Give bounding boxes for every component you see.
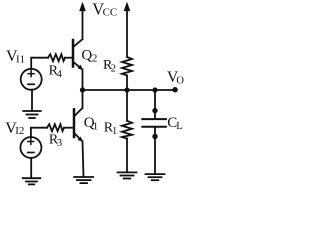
capacitor CL <box>142 118 166 120</box>
node dot CL top <box>152 108 157 113</box>
resistor R1 <box>122 121 132 139</box>
wire node to R1 <box>126 90 128 121</box>
node junction dot R2/R1 <box>124 87 129 92</box>
label VI2 <box>5 120 24 137</box>
svg-text:1: 1 <box>112 126 117 137</box>
node junction dot CL branch <box>152 87 157 92</box>
wire Q2 emitter down to node <box>82 70 84 90</box>
wire R2 to output node <box>126 75 128 90</box>
label R2 <box>103 58 116 74</box>
power VCC arrow right <box>126 8 128 57</box>
label CL <box>167 115 182 132</box>
label R3 <box>49 133 62 149</box>
wire R4 to Q2 base <box>65 57 72 59</box>
ground under VI2 <box>23 178 41 184</box>
voltage source VI1 <box>21 69 42 90</box>
svg-text:Q: Q <box>81 47 92 63</box>
transistor Q1 emitter arrowhead <box>78 137 83 142</box>
resistor R3 <box>47 124 64 131</box>
label VI1 <box>6 48 25 66</box>
wire CL to ground <box>154 127 156 174</box>
transistor Q1 collector diagonal <box>75 108 83 116</box>
svg-text:I2: I2 <box>15 125 24 137</box>
node junction dot Q2/Q1/output <box>80 87 85 92</box>
label Q1 <box>84 115 98 132</box>
power VCC arrow left <box>80 3 86 11</box>
wire Q2 collector to VCC <box>82 8 84 39</box>
svg-text:O: O <box>176 76 184 87</box>
ground under R1 <box>118 172 137 178</box>
transistor Q2 collector diagonal <box>74 39 83 46</box>
svg-text:L: L <box>176 121 182 132</box>
wire VI2 to R3 <box>31 128 47 138</box>
voltage source VI2 <box>20 137 41 158</box>
transistor Q2 emitter diagonal <box>74 62 81 68</box>
svg-text:1: 1 <box>93 120 99 132</box>
transistor Q1 emitter diagonal <box>75 134 81 140</box>
ground under CL <box>146 174 165 180</box>
ground under Q1 <box>74 177 93 183</box>
svg-text:CC: CC <box>103 7 118 19</box>
label R4 <box>49 64 63 80</box>
label VO <box>167 69 184 87</box>
wire R1 to ground <box>126 139 128 173</box>
transistor Q2 emitter arrowhead <box>78 65 83 70</box>
label R1 <box>104 121 118 137</box>
wire R3 to Q1 base <box>64 127 73 129</box>
transistor Q2 base bar <box>72 40 75 67</box>
svg-text:2: 2 <box>111 64 116 75</box>
svg-text:2: 2 <box>92 53 98 65</box>
wire VI1 to ground <box>31 90 33 111</box>
wire VI2 to ground <box>30 158 32 178</box>
wire Q1 emitter to ground <box>83 141 84 177</box>
transistor Q1 base bar <box>73 109 76 137</box>
svg-text:I1: I1 <box>16 54 25 66</box>
svg-text:4: 4 <box>57 69 63 80</box>
wire output node horizontal <box>83 89 176 91</box>
node terminal dot VO <box>172 87 177 92</box>
wire Q1 collector to node <box>82 90 84 108</box>
resistor R4 <box>48 54 65 61</box>
label Q2 <box>81 47 97 64</box>
wire VI1 to R4 <box>31 58 48 69</box>
svg-text:3: 3 <box>57 138 62 149</box>
label VCC <box>92 0 117 19</box>
resistor R2 <box>122 57 132 75</box>
ground under VI1 <box>23 111 41 118</box>
wire node to CL <box>154 90 156 119</box>
node dot CL bottom <box>152 134 157 139</box>
